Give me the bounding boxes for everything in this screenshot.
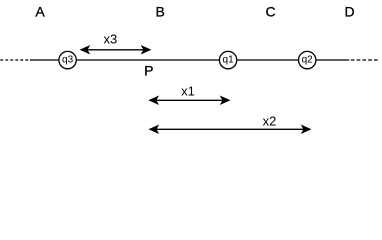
dimension arrow x1 (P to q1) xyxy=(149,83,229,104)
svg-text:D: D xyxy=(344,3,354,19)
svg-text:x2: x2 xyxy=(263,114,277,129)
svg-text:q2: q2 xyxy=(302,55,314,66)
dimension arrow x2 (P to q2) xyxy=(149,114,310,134)
svg-text:q3: q3 xyxy=(62,55,74,66)
wire: right dashed extension xyxy=(351,59,378,61)
wire: main horizontal line xyxy=(30,59,350,61)
svg-text:x1: x1 xyxy=(181,83,195,98)
wire: left dashed extension xyxy=(0,59,28,61)
svg-text:x3: x3 xyxy=(104,32,118,47)
charge q3 xyxy=(59,51,76,68)
svg-text:C: C xyxy=(265,3,275,19)
charge q2 xyxy=(299,51,316,68)
svg-text:P: P xyxy=(144,63,153,79)
svg-text:q1: q1 xyxy=(223,55,235,66)
dimension arrow x3 (q3 to P) xyxy=(81,32,151,54)
svg-text:A: A xyxy=(35,3,45,19)
svg-text:B: B xyxy=(156,3,165,19)
charge q1 xyxy=(219,51,236,68)
